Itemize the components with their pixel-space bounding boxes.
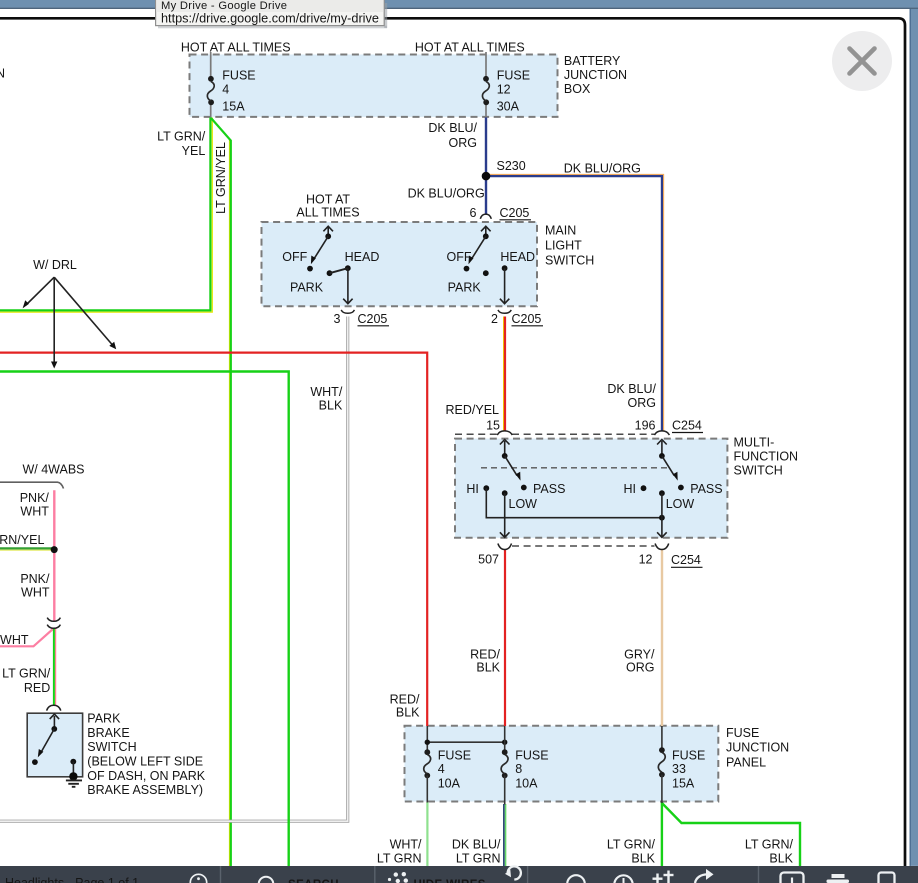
fuse F12 element [483, 76, 489, 82]
svg-text:W/ 4WABS: W/ 4WABS [22, 463, 84, 477]
svg-text:12: 12 [497, 82, 511, 96]
svg-text:BLK: BLK [769, 852, 793, 866]
svg-text:OF DASH, ON PARK: OF DASH, ON PARK [87, 769, 206, 783]
svg-text:BLK: BLK [476, 660, 500, 674]
svg-text:12: 12 [639, 553, 653, 567]
svg-text:N: N [0, 67, 5, 81]
multi-function switch box [455, 439, 727, 538]
bottom toolbar [0, 866, 918, 883]
park brake switch cup [47, 705, 61, 710]
svg-text:196: 196 [635, 418, 656, 432]
svg-text:FUSE: FUSE [726, 726, 759, 740]
svg-text:15A: 15A [222, 100, 245, 114]
park brake common contact [51, 726, 57, 732]
switch B HEAD contact [502, 265, 508, 271]
MFS right arm to PASS [662, 456, 674, 476]
svg-text:LT GRN/: LT GRN/ [607, 838, 656, 852]
svg-text:15: 15 [486, 418, 500, 432]
svg-text:BRAKE: BRAKE [87, 726, 129, 740]
browser tooltip shadow [384, 3, 387, 28]
svg-text:PANEL: PANEL [726, 756, 766, 770]
wire RED/YEL yellow stripe [503, 317, 505, 431]
node S230 [482, 172, 491, 181]
toolbar share icon [695, 874, 708, 883]
MFS right output arrow pin12 [661, 493, 663, 536]
switch A park-head link [330, 268, 348, 273]
svg-text:GRN/YEL: GRN/YEL [0, 533, 44, 547]
svg-text:FUSE: FUSE [497, 68, 530, 82]
svg-text:ORG: ORG [626, 660, 654, 674]
wire GRY/ORG from C254 pin12 to fuse33 [661, 550, 663, 726]
svg-text:33: 33 [672, 762, 686, 776]
wire LT GRN headlamp feed horizontal [0, 372, 289, 867]
wire DK BLU/ORG S230 branch orange stripe [488, 175, 664, 431]
switch B OFF contact [464, 266, 470, 272]
svg-text:RED/YEL: RED/YEL [446, 403, 500, 417]
svg-text:WHT: WHT [20, 504, 49, 518]
svg-text:Headlights - Page 1 of 1: Headlights - Page 1 of 1 [5, 876, 139, 883]
svg-text:LOW: LOW [509, 497, 538, 511]
toolbar clock icon [614, 875, 632, 883]
svg-text:OFF: OFF [447, 250, 472, 264]
wire GRN/YEL yellow stripe [0, 549, 51, 551]
branch junction dots [425, 740, 430, 745]
junction dot GRN/YEL to PNK/WHT [51, 546, 58, 553]
switch B arm to OFF [471, 236, 485, 259]
svg-text:C205: C205 [358, 312, 388, 326]
svg-text:OFF: OFF [282, 250, 307, 264]
fuse panel F4 stub and branch [426, 726, 428, 750]
park brake arm [42, 729, 55, 752]
svg-text:MAIN: MAIN [545, 224, 576, 238]
wire PNK/WHT vertical [53, 490, 55, 620]
fuse junction panel box [405, 726, 719, 802]
connector C254 pin15 cup [497, 431, 512, 435]
svg-text:https://drive.google.com/drive: https://drive.google.com/drive/my-drive [161, 11, 379, 25]
svg-text:6: 6 [470, 206, 477, 220]
main light switch section B feed arrow [485, 228, 487, 237]
svg-text:DK BLU/ORG: DK BLU/ORG [408, 186, 485, 200]
MFS HI jumper to right low wire [486, 488, 662, 518]
W/ DRL pointer arrows [26, 277, 54, 305]
svg-text:JUNCTION: JUNCTION [564, 68, 627, 82]
switch A arm to OFF [314, 236, 328, 259]
wire RED/BLK from C254 pin507 to fuse8 [504, 550, 506, 726]
svg-text:10A: 10A [438, 777, 461, 791]
MFS right feed arrow [661, 441, 663, 456]
switch A common contact [325, 233, 331, 239]
svg-text:BLK: BLK [396, 706, 420, 720]
wire LT GRN/YEL A (fuse4 to left exit) [0, 118, 210, 311]
MFS left HI contact [483, 485, 489, 491]
connector C254 top dashed line [455, 433, 498, 435]
svg-text:8: 8 [515, 762, 522, 776]
svg-text:FUSE: FUSE [438, 748, 471, 762]
svg-text:ORG: ORG [628, 396, 656, 410]
MFS jumper junction dot [659, 515, 665, 521]
MFS right common contact [659, 453, 665, 459]
svg-text:My Drive - Google Drive: My Drive - Google Drive [161, 0, 287, 12]
svg-text:SWITCH: SWITCH [545, 254, 594, 268]
wire LT GRN/YEL B yellow stripe [229, 140, 231, 866]
toolbar zoom icon [567, 875, 585, 883]
svg-text:JUNCTION: JUNCTION [726, 741, 789, 755]
MFS right PASS contact [678, 485, 684, 491]
svg-text:C205: C205 [512, 312, 542, 326]
MFS left PASS contact [521, 485, 527, 491]
wire RED/BLK horizontal from left to fuse4 [0, 353, 427, 726]
svg-text:WHT: WHT [21, 586, 50, 600]
wire LT GRN/BLK from fuse33 down [661, 802, 663, 866]
svg-text:WHT/: WHT/ [310, 385, 342, 399]
MFS mechanical link dashed [481, 467, 671, 469]
connector C254 pin12 cup [655, 544, 669, 550]
wire LT GRN/RED to park brake switch [53, 628, 55, 706]
wire DK BLU/LT GRN green part [505, 804, 507, 866]
park brake open contact [32, 759, 38, 765]
svg-text:(BELOW LEFT SIDE: (BELOW LEFT SIDE [87, 755, 203, 769]
svg-text:LT GRN: LT GRN [377, 852, 422, 866]
svg-text:PASS: PASS [533, 482, 565, 496]
toolbar bookmark icon [879, 873, 895, 883]
wire WHT/LT GRN from fuse4 bottom [426, 802, 428, 866]
toolbar wires icon [388, 872, 408, 883]
switch B output arrow to pin2 [504, 268, 506, 303]
svg-text:HOT AT ALL TIMES: HOT AT ALL TIMES [181, 41, 291, 55]
connector C254 pin196 cup [654, 431, 669, 435]
svg-text:SWITCH: SWITCH [734, 464, 783, 478]
svg-text:W/ DRL: W/ DRL [33, 258, 77, 272]
svg-text:LT GRN/YEL: LT GRN/YEL [214, 142, 228, 214]
ground symbol [66, 780, 82, 786]
close button [832, 31, 892, 91]
connector C205 pin3 cup [341, 310, 354, 313]
wire LT GRN/BLK branch right [662, 803, 800, 866]
fuse F8 panel element [504, 726, 506, 750]
svg-text:ALL TIMES: ALL TIMES [296, 205, 359, 219]
svg-text:15A: 15A [672, 777, 695, 791]
wire LT GRN/RED red stripe [55, 628, 57, 706]
wire W/4WABS gray stub [0, 482, 64, 488]
svg-text:2: 2 [491, 312, 498, 326]
svg-text:RED: RED [24, 681, 50, 695]
wire DK BLU/ORG S230 branch to C254 pin196 [487, 176, 662, 431]
toolbar sliders icon [653, 871, 674, 883]
MFS right HI contact [641, 485, 647, 491]
svg-text:BOX: BOX [564, 82, 591, 96]
svg-text:LOW: LOW [666, 497, 695, 511]
MFS left output arrow pin507 [504, 493, 506, 536]
connector C254 bottom dashed line [512, 545, 655, 547]
main light switch section A feed arrow [327, 228, 329, 237]
park brake feed arrow [53, 716, 55, 729]
browser right strip [910, 9, 918, 866]
wire DK BLU/ORG fuse12 to C205 pin6 [485, 117, 487, 215]
svg-text:DK BLU/: DK BLU/ [428, 121, 477, 135]
wire GRN/YEL horizontal [0, 547, 52, 549]
svg-text:DK BLU/: DK BLU/ [607, 382, 656, 396]
svg-text:PARK: PARK [448, 280, 482, 294]
wire RED/YEL C205 pin2 to C254 pin15 [504, 317, 506, 431]
svg-text:YEL: YEL [182, 144, 206, 158]
wire WHT/BLK core [0, 317, 348, 822]
svg-text:WHT/: WHT/ [390, 838, 422, 852]
wire WHT/BLK outline [0, 317, 348, 822]
svg-text:RED/: RED/ [390, 693, 420, 707]
svg-text:DK BLU/ORG: DK BLU/ORG [564, 162, 641, 176]
svg-text:PNK/: PNK/ [20, 491, 50, 505]
svg-text:PARK: PARK [87, 712, 121, 726]
battery junction box [190, 55, 558, 117]
svg-text:FUNCTION: FUNCTION [734, 450, 799, 464]
svg-text:HI: HI [466, 482, 479, 496]
wire PNK/WHT from lower left [0, 629, 54, 647]
svg-text:LT GRN/: LT GRN/ [745, 838, 794, 852]
wire LT GRN/YEL A yellow stripe [0, 118, 212, 313]
connector C205 pin2 cup [498, 310, 511, 313]
svg-text:507: 507 [478, 553, 499, 567]
park brake switch box [27, 713, 82, 777]
svg-text:LIGHT: LIGHT [545, 239, 582, 253]
svg-text:LT GRN/: LT GRN/ [157, 130, 206, 144]
fuse F4 battery box: stubs [210, 52, 212, 118]
svg-text:LT GRN: LT GRN [456, 852, 501, 866]
svg-text:GRN/WHT: GRN/WHT [0, 633, 29, 647]
wire DK BLU/LT GRN navy part [503, 804, 505, 866]
MFS right LOW contact [659, 490, 665, 496]
svg-text:LT GRN/: LT GRN/ [2, 667, 51, 681]
svg-text:3: 3 [334, 312, 341, 326]
svg-text:HOT AT ALL TIMES: HOT AT ALL TIMES [415, 41, 525, 55]
svg-text:FUSE: FUSE [515, 748, 548, 762]
toolbar search icon [259, 877, 274, 883]
svg-text:BATTERY: BATTERY [564, 54, 621, 68]
fuse F4 element [208, 76, 214, 82]
svg-text:MULTI-: MULTI- [734, 435, 775, 449]
svg-text:C254: C254 [672, 418, 702, 432]
MFS left common contact [502, 453, 508, 459]
MFS left LOW contact [502, 490, 508, 496]
inline connector PNK/WHT upper cup [47, 618, 60, 622]
svg-text:BLK: BLK [631, 852, 655, 866]
svg-text:SWITCH: SWITCH [87, 740, 136, 754]
switch A HEAD contact [345, 265, 351, 271]
toolbar info icon [190, 874, 206, 883]
connector C205 pin6 cup [480, 214, 491, 219]
toolbar print icon [832, 874, 845, 878]
svg-text:C254: C254 [671, 553, 701, 567]
fuse F33 panel element [661, 726, 663, 748]
svg-text:10A: 10A [515, 777, 538, 791]
MFS left feed arrow [504, 441, 506, 456]
svg-text:HIDE WIRES: HIDE WIRES [414, 879, 486, 883]
svg-text:4: 4 [438, 762, 445, 776]
MFS left arm to PASS [505, 456, 517, 476]
switch B PARK contact [483, 270, 489, 276]
svg-text:S230: S230 [497, 159, 526, 173]
svg-text:HI: HI [624, 482, 637, 496]
fuse F4 panel element [424, 749, 430, 755]
svg-text:FUSE: FUSE [222, 68, 255, 82]
svg-text:HEAD: HEAD [500, 250, 535, 264]
svg-text:HEAD: HEAD [345, 250, 380, 264]
switch B common contact [483, 233, 489, 239]
toolbar download icon [781, 873, 804, 883]
svg-text:PASS: PASS [690, 482, 722, 496]
switch A PARK contact [327, 270, 333, 276]
svg-text:C205: C205 [500, 206, 530, 220]
browser tooltip [156, 0, 385, 26]
switch A OFF contact [307, 266, 313, 272]
svg-text:PNK/: PNK/ [20, 572, 50, 586]
svg-text:4: 4 [222, 82, 229, 96]
svg-text:ORG: ORG [449, 136, 477, 150]
svg-text:DK BLU/: DK BLU/ [452, 838, 501, 852]
inline connector lower cup [47, 625, 60, 629]
svg-text:30A: 30A [497, 100, 520, 114]
svg-text:PARK: PARK [290, 280, 324, 294]
wire LT GRN/YEL B (fuse4 down to bottom) [211, 118, 231, 866]
svg-text:FUSE: FUSE [672, 748, 705, 762]
svg-text:SEARCH: SEARCH [288, 879, 339, 883]
park brake ground contact [70, 759, 76, 765]
connector C254 pin507 cup [498, 544, 512, 550]
svg-text:BRAKE ASSEMBLY): BRAKE ASSEMBLY) [87, 783, 203, 797]
svg-text:HOT AT: HOT AT [306, 192, 350, 206]
browser top bar [0, 0, 918, 8]
svg-text:BLK: BLK [319, 399, 343, 413]
fuse F12 battery box: stubs [485, 52, 487, 118]
toolbar undo icon [508, 866, 521, 879]
switch A output arrow to pin3 [347, 268, 349, 303]
main light switch box [262, 222, 538, 306]
